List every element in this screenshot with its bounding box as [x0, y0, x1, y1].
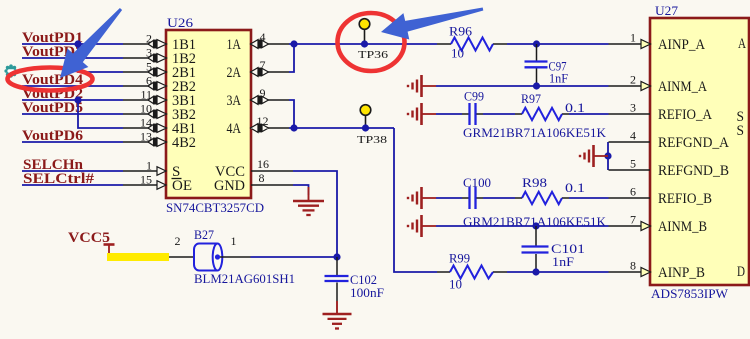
svg-text:5: 5: [146, 60, 152, 74]
pin 9 3A: [227, 86, 290, 109]
wire TP38 net down to AINP_B row: [394, 128, 437, 272]
svg-text:100nF: 100nF: [350, 285, 384, 300]
capacitor C100 GRM21BR71A106KE51K: [462, 175, 607, 229]
wire R96 to U27 pin 1: [507, 43, 609, 45]
junction VoutPD1 branch: [74, 40, 81, 47]
pin 2 1B1: [123, 32, 196, 54]
svg-text:6: 6: [146, 74, 152, 88]
wire AINM_B to U27 pin 7: [436, 225, 609, 227]
wire AINM_A to U27 pin 2: [436, 85, 609, 87]
ground (rotated) on REFGND: [580, 145, 608, 167]
svg-text:R96: R96: [449, 24, 473, 39]
capacitor C99 GRM21BR71A106KE51K: [462, 89, 607, 141]
capacitor C97 1nF: [525, 44, 569, 86]
wire VoutPD2 to pin 11: [22, 99, 123, 101]
testpoint TP38: [357, 105, 388, 146]
pin 8 GND: [214, 171, 293, 194]
wire VoutPD1 to pin 2: [22, 43, 123, 45]
pin 3 REFIO_A: [609, 101, 713, 124]
svg-text:0.1: 0.1: [565, 100, 585, 115]
svg-text:4: 4: [630, 129, 636, 143]
svg-text:8: 8: [259, 171, 265, 185]
wire C100 to R98: [483, 197, 515, 199]
pin 4 1A: [227, 30, 290, 53]
junction REFGND: [604, 152, 611, 159]
svg-text:2: 2: [630, 73, 636, 87]
svg-text:7: 7: [260, 58, 266, 72]
svg-text:R97: R97: [521, 91, 541, 106]
wire 3A down to 4A: [289, 100, 294, 128]
junction VoutPD2 branch: [74, 96, 81, 103]
svg-text:A: A: [738, 36, 746, 52]
svg-text:AINM_B: AINM_B: [658, 219, 707, 235]
svg-text:3A: 3A: [227, 93, 242, 109]
svg-text:REFGND_B: REFGND_B: [658, 163, 729, 179]
svg-text:2A: 2A: [227, 65, 242, 81]
svg-text:3: 3: [630, 101, 636, 115]
wire VoutPD6 to pin 13: [22, 141, 123, 143]
svg-text:S: S: [737, 123, 745, 139]
svg-text:4A: 4A: [227, 121, 242, 137]
blue arrow annotation at TP36: [381, 8, 483, 40]
svg-text:1nF: 1nF: [549, 71, 568, 86]
pin 6 REFIO_B: [609, 185, 713, 208]
svg-text:9: 9: [260, 86, 266, 100]
wire VCC5 highlighted: [107, 253, 169, 261]
svg-text:7: 7: [630, 213, 636, 227]
svg-text:4B2: 4B2: [172, 135, 196, 151]
blue arrow annotation at VoutPD4: [60, 8, 122, 78]
wire VoutPD1 branch vertical to pin 5: [78, 44, 123, 72]
junction C101 top: [532, 222, 539, 229]
wire SELCtrl# to pin 15: [22, 184, 123, 186]
wire SELCHn to pin 1: [22, 170, 123, 172]
pin 13 4B2: [123, 130, 196, 152]
ferrite bead B27 BLM21AG601SH1: [169, 227, 295, 286]
svg-text:13: 13: [140, 130, 152, 144]
svg-text:C100: C100: [463, 175, 491, 190]
svg-text:BLM21AG601SH1: BLM21AG601SH1: [194, 271, 295, 286]
svg-text:R99: R99: [449, 251, 470, 266]
pin 7 AINM_B: [609, 213, 708, 236]
red circle around TP36: [338, 13, 405, 71]
wire 4A to corner: [289, 127, 394, 129]
svg-text:GND: GND: [214, 178, 245, 194]
svg-text:10: 10: [451, 46, 464, 61]
wire B27 to C102/VCC junction: [251, 256, 338, 258]
svg-text:15: 15: [140, 173, 152, 187]
wire C99 to R97: [483, 113, 515, 115]
wire REFGND_A/B bracket: [607, 142, 609, 170]
testpoint TP36: [358, 19, 389, 61]
resistor R98 0.1: [515, 175, 585, 204]
svg-text:REFIO_B: REFIO_B: [658, 191, 712, 207]
red ellipse around VoutPD4: [8, 68, 93, 91]
svg-text:2: 2: [175, 234, 181, 248]
power port VCC5: [68, 230, 115, 257]
wire R99 to U27 pin 8: [507, 271, 609, 273]
svg-text:TP38: TP38: [357, 134, 388, 146]
svg-text:16: 16: [257, 157, 269, 171]
ground (rotated) on AINM_A: [408, 75, 436, 97]
pin 8 AINP_B: [609, 259, 706, 282]
svg-text:11: 11: [140, 88, 152, 102]
ground C102: [323, 301, 352, 329]
svg-text:REFIO_A: REFIO_A: [658, 107, 712, 123]
svg-text:10: 10: [140, 102, 152, 116]
capacitor C102 100nF: [325, 257, 385, 301]
svg-text:0.1: 0.1: [565, 180, 585, 195]
svg-text:5: 5: [630, 157, 636, 171]
wire ground to C99: [436, 113, 462, 115]
svg-text:14: 14: [140, 116, 152, 130]
svg-text:ADS7853IPW: ADS7853IPW: [651, 286, 729, 301]
svg-text:GRM21BR71A106KE51K: GRM21BR71A106KE51K: [463, 125, 607, 140]
wire VoutPD4 to pin 6: [22, 85, 123, 87]
wire VCC pin16 down to B27 net: [293, 171, 337, 257]
svg-text:1nF: 1nF: [552, 254, 574, 269]
svg-text:1A: 1A: [227, 37, 242, 53]
resistor R96: [437, 24, 507, 61]
comment marker (teal): [4, 64, 17, 77]
resistor R97 0.1: [515, 91, 585, 120]
ground (rotated) on C100: [408, 187, 436, 209]
junction C97 top: [533, 40, 540, 47]
wire 2A up to 1A: [289, 44, 294, 72]
capacitor C101 1nF: [522, 226, 586, 272]
junction B27/VCC/C102: [333, 253, 340, 260]
op-amp U27 body: [650, 18, 749, 285]
ground U26 GND: [293, 187, 324, 215]
svg-text:2: 2: [146, 32, 152, 46]
pin 5 2B1: [123, 60, 196, 82]
wire GND pin8 to ground: [293, 185, 309, 195]
svg-text:3: 3: [146, 46, 152, 60]
svg-text:10: 10: [449, 277, 462, 292]
pin 2 AINM_A: [609, 73, 708, 96]
svg-text:12: 12: [257, 114, 269, 128]
pin 5 REFGND_B: [609, 157, 730, 180]
pin 7 2A: [227, 58, 290, 81]
wire R97 to U27 pin 3: [569, 113, 609, 115]
svg-text:REFGND_A: REFGND_A: [658, 135, 729, 151]
wire ground to C100: [436, 197, 462, 199]
pin 15 OE (active low): [123, 173, 192, 195]
pin 11 3B1: [123, 88, 196, 110]
op-amp U26 body: [166, 30, 251, 198]
wire VoutPD3 to pin 3: [22, 57, 123, 59]
svg-text:U27: U27: [655, 3, 679, 18]
pin 14 4B1: [123, 116, 196, 138]
resistor R99 10: [437, 251, 507, 292]
junction C101 bottom: [532, 268, 539, 275]
svg-text:8: 8: [630, 259, 636, 273]
junction 3A/4A: [290, 124, 297, 131]
svg-text:TP36: TP36: [358, 49, 389, 61]
svg-text:D: D: [737, 264, 745, 280]
svg-text:4: 4: [260, 30, 266, 44]
pin 10 3B2: [123, 102, 196, 124]
svg-text:C99: C99: [464, 89, 484, 104]
wire 1A to R96: [289, 43, 437, 45]
pin 6 2B2: [123, 74, 196, 96]
wire VoutPD5 to pin 10: [22, 113, 123, 115]
svg-text:B27: B27: [194, 227, 214, 242]
pin 3 1B2: [123, 46, 196, 68]
pin 16 VCC: [215, 157, 293, 180]
pin 4 REFGND_A: [609, 129, 730, 152]
junction C97 bottom: [533, 82, 540, 89]
svg-text:1: 1: [630, 31, 636, 45]
pin 1 S: [123, 159, 180, 181]
svg-text:OE: OE: [172, 178, 192, 194]
svg-text:1: 1: [146, 159, 152, 173]
svg-text:AINP_A: AINP_A: [658, 37, 705, 53]
svg-text:AINM_A: AINM_A: [658, 79, 707, 95]
ground (rotated) on C99: [408, 103, 436, 125]
pin 12 4A: [227, 114, 290, 137]
svg-text:U26: U26: [167, 15, 194, 30]
svg-text:R98: R98: [522, 175, 547, 190]
wire R98 to U27 pin 6: [569, 197, 609, 199]
svg-text:SN74CBT3257CD: SN74CBT3257CD: [166, 200, 264, 215]
svg-text:6: 6: [630, 185, 636, 199]
svg-text:1: 1: [231, 234, 237, 248]
wire VoutPD2 branch vertical to pin 14: [78, 100, 123, 128]
junction 1A/2A: [290, 40, 297, 47]
svg-text:AINP_B: AINP_B: [658, 265, 705, 281]
pin 1 AINP_A: [609, 31, 706, 54]
ground (rotated) on AINM_B: [408, 215, 436, 237]
